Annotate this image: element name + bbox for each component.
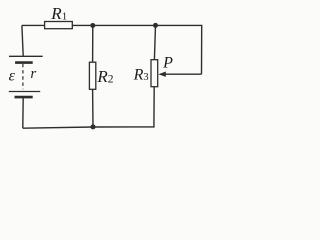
svg-text:r: r <box>30 66 36 82</box>
resistor R1 <box>45 22 73 29</box>
wire node B to top-right corner and down right side <box>156 25 202 74</box>
dashed connector between cells <box>22 64 24 89</box>
wire node A down to R2 <box>92 26 94 63</box>
svg-text:P: P <box>162 55 173 72</box>
wire left side down to battery <box>22 25 23 56</box>
wiper arrowhead <box>158 72 165 77</box>
bottom node junction dot <box>91 124 96 129</box>
wire bottom <box>23 127 155 128</box>
wire top-left corner to R1 <box>22 24 45 26</box>
svg-text:ε: ε <box>9 67 16 84</box>
wire R1 to node A <box>72 24 93 26</box>
node B junction dot <box>153 23 158 28</box>
wire R2 to bottom node <box>92 89 94 127</box>
wire wiper arm from right wire <box>165 73 201 75</box>
battery cell 2 short plate (-) <box>15 96 33 99</box>
wire node B down to R3 <box>154 25 155 59</box>
wire node A to node B <box>93 24 156 26</box>
battery cell 1 long plate (+) <box>9 55 43 57</box>
battery cell 2 long plate (+) <box>9 91 40 93</box>
wire R3 to bottom wire <box>153 87 155 127</box>
rheostat R3 <box>151 60 158 87</box>
wire battery to bottom-left corner <box>22 98 24 129</box>
node A junction dot <box>90 23 95 28</box>
resistor R2 <box>89 62 95 89</box>
battery cell 1 short plate (-) <box>15 61 33 64</box>
